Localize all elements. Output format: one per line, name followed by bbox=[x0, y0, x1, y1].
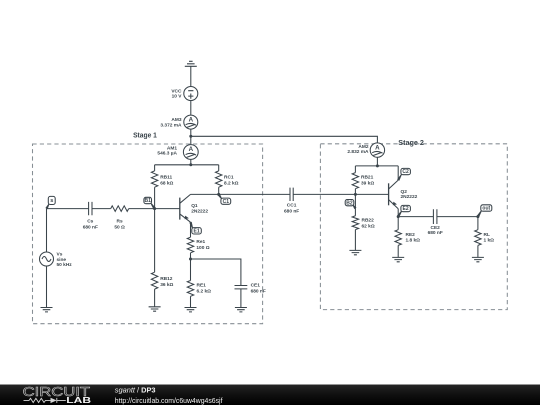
svg-text:8.2 kΩ: 8.2 kΩ bbox=[224, 180, 239, 186]
svg-text:AM2: AM2 bbox=[358, 144, 368, 150]
voltage source Vs sine 50 kHz bbox=[40, 209, 73, 269]
svg-text:AM1: AM1 bbox=[167, 145, 177, 151]
wire Q1 emitter down bbox=[190, 222, 192, 237]
wire AM2 to stage2 rail bbox=[376, 157, 378, 166]
wire CE2 to out bbox=[437, 216, 478, 218]
dashed box Stage 1 bbox=[33, 144, 263, 324]
resistor Rs 50 Ohm bbox=[111, 206, 129, 231]
capacitor CE2 680 nF bbox=[428, 209, 443, 236]
flag out bbox=[477, 205, 492, 218]
svg-text:RL: RL bbox=[484, 232, 490, 238]
svg-text:CE2: CE2 bbox=[431, 225, 441, 231]
ground under RE1 bbox=[185, 308, 197, 312]
svg-text:680 nF: 680 nF bbox=[428, 230, 443, 236]
wire RE1 to ground bbox=[190, 296, 192, 307]
svg-text:RB12: RB12 bbox=[160, 276, 173, 282]
resistor RB21 39 kOhm bbox=[352, 166, 374, 189]
svg-text:sgantt / DP3: sgantt / DP3 bbox=[115, 385, 156, 394]
wire stage1 top rail bbox=[155, 164, 219, 166]
dashed box Stage 2 bbox=[320, 144, 507, 310]
svg-text:Re1: Re1 bbox=[196, 239, 205, 245]
node supply split bbox=[189, 135, 192, 138]
wire RB11 to B1 bbox=[154, 187, 156, 208]
ammeter AM3 3.372 mA bbox=[160, 115, 197, 129]
svg-text:1.8 kΩ: 1.8 kΩ bbox=[406, 238, 421, 244]
svg-text:B1: B1 bbox=[144, 198, 151, 204]
svg-text:C2: C2 bbox=[402, 169, 409, 175]
ammeter AM1 546.3 uA bbox=[157, 145, 198, 160]
flag B1 bbox=[144, 197, 156, 209]
voltage source VCC 10 V bbox=[171, 87, 197, 101]
wire B2 down to RB22 bbox=[354, 194, 356, 215]
wire RE2 to ground bbox=[397, 245, 399, 257]
wire stage2 top rail bbox=[355, 165, 398, 167]
svg-text:out: out bbox=[482, 206, 490, 212]
node B1 bbox=[153, 207, 156, 210]
svg-text:62 kΩ: 62 kΩ bbox=[362, 223, 375, 229]
wire Vs to ground bbox=[46, 266, 48, 308]
wire Q1 collector line bbox=[191, 193, 291, 195]
wire RC1 to C1 node bbox=[218, 187, 220, 194]
svg-text:A: A bbox=[189, 116, 194, 123]
wire AM3 to node bbox=[190, 129, 192, 136]
svg-text:10 V: 10 V bbox=[172, 94, 183, 100]
node rail T bbox=[189, 163, 192, 166]
footer bar bbox=[0, 385, 540, 405]
wire RL to ground bbox=[477, 245, 479, 257]
wire RB12 to ground bbox=[154, 289, 156, 307]
svg-text:680 nF: 680 nF bbox=[284, 208, 299, 214]
svg-text:CE1: CE1 bbox=[251, 283, 261, 289]
node E2 junction bbox=[397, 215, 400, 218]
svg-text:68 kΩ: 68 kΩ bbox=[160, 180, 173, 186]
node emitter junction bbox=[189, 258, 192, 261]
capacitor CE1 680 nF bbox=[235, 283, 266, 295]
svg-text:AM3: AM3 bbox=[171, 117, 181, 123]
ground under CE1 bbox=[235, 308, 247, 312]
svg-text:Stage 1: Stage 1 bbox=[133, 130, 157, 139]
flag E2 bbox=[397, 205, 410, 217]
svg-text:RE1: RE1 bbox=[197, 283, 207, 289]
svg-text:6.2 kΩ: 6.2 kΩ bbox=[197, 288, 212, 294]
svg-text:2N2222: 2N2222 bbox=[401, 194, 418, 200]
svg-text:Rs: Rs bbox=[117, 219, 123, 225]
svg-text:100 Ω: 100 Ω bbox=[196, 245, 209, 251]
svg-text:LAB: LAB bbox=[66, 395, 91, 405]
node stage2 rail T bbox=[376, 164, 379, 167]
resistor RB22 62 kOhm bbox=[352, 216, 375, 230]
ground under RL bbox=[472, 257, 484, 261]
wire Re1 to emitter node bbox=[190, 253, 192, 259]
svg-text:B2: B2 bbox=[346, 200, 353, 206]
svg-text:2N2222: 2N2222 bbox=[191, 208, 208, 214]
wire Q2 collector riser bbox=[397, 166, 399, 180]
svg-text:RB22: RB22 bbox=[362, 218, 375, 224]
flag C1 bbox=[218, 194, 231, 205]
wire E2 to CE2 bbox=[398, 216, 433, 218]
resistor RL 1 kOhm bbox=[475, 217, 494, 246]
flag E1 bbox=[189, 222, 201, 235]
wire ground to VCC bbox=[190, 66, 192, 86]
wire CE1 to ground bbox=[240, 289, 242, 308]
svg-text:Cs: Cs bbox=[87, 219, 93, 225]
svg-text:39 kΩ: 39 kΩ bbox=[361, 180, 374, 186]
svg-text:546.3 µA: 546.3 µA bbox=[157, 151, 177, 157]
resistor RB11 68 kOhm bbox=[151, 165, 173, 187]
resistor RE2 1.8 kOhm bbox=[395, 217, 420, 246]
flag s bbox=[45, 196, 55, 209]
flag B2 bbox=[345, 200, 356, 210]
svg-text:E1: E1 bbox=[194, 229, 200, 235]
wire supply node to stage 2 (to AM2) bbox=[191, 136, 378, 143]
svg-text:Q1: Q1 bbox=[191, 203, 198, 209]
svg-text:Stage 2: Stage 2 bbox=[398, 138, 424, 147]
svg-text:680 nF: 680 nF bbox=[83, 224, 98, 230]
logo squiggle resistor-diode bbox=[24, 398, 66, 403]
svg-text:Q2: Q2 bbox=[401, 189, 408, 195]
svg-text:A: A bbox=[375, 144, 380, 151]
svg-text:A: A bbox=[189, 146, 194, 153]
node B2 bbox=[354, 193, 357, 196]
svg-text:Vs: Vs bbox=[57, 251, 63, 257]
node out bbox=[476, 215, 479, 218]
svg-text:C1: C1 bbox=[223, 199, 230, 205]
resistor RC1 8.2 kOhm bbox=[216, 165, 239, 187]
transistor Q2 2N2222 bbox=[389, 180, 418, 209]
svg-text:http://circuitlab.com/c6uw4wg4: http://circuitlab.com/c6uw4wg4s6sjf bbox=[115, 396, 224, 405]
svg-text:RE2: RE2 bbox=[406, 232, 416, 238]
capacitor CC1 680 nF bbox=[284, 188, 299, 215]
wire VCC to AM3 bbox=[190, 101, 192, 116]
wire RB21 to B2 bbox=[354, 189, 356, 195]
svg-text:RC1: RC1 bbox=[224, 174, 234, 180]
ammeter AM2 2.832 mA bbox=[347, 143, 384, 157]
svg-text:50 Ω: 50 Ω bbox=[114, 224, 125, 230]
node C1 bbox=[217, 193, 220, 196]
wire CC1 to B2 bbox=[293, 193, 355, 195]
svg-text:2.832 mA: 2.832 mA bbox=[347, 149, 369, 155]
wire B2 to Q2 base bbox=[355, 193, 388, 195]
ground under RE2 bbox=[392, 257, 404, 261]
ground under Vs bbox=[41, 308, 53, 312]
transistor Q1 2N2222 bbox=[180, 194, 209, 222]
svg-text:RB11: RB11 bbox=[160, 174, 172, 180]
resistor RB12 36 kOhm bbox=[151, 209, 173, 290]
svg-text:680 nF: 680 nF bbox=[251, 288, 266, 294]
resistor Re1 100 Ohm bbox=[187, 237, 209, 253]
ground under RB12 bbox=[149, 307, 161, 311]
wire Rs to Q1 base bbox=[129, 208, 180, 210]
ground under RB22 bbox=[349, 250, 361, 254]
ground (supply top, flipped) bbox=[185, 61, 197, 66]
wire emitter node to CE1 bbox=[191, 259, 241, 286]
wire node to AM1 bbox=[190, 136, 192, 144]
svg-text:E2: E2 bbox=[403, 206, 409, 212]
resistor RE1 6.2 kOhm bbox=[187, 259, 211, 296]
svg-text:s: s bbox=[50, 198, 53, 204]
flag C2 bbox=[397, 168, 410, 180]
capacitor Cs 680 nF bbox=[83, 202, 98, 231]
wire RB22 to ground bbox=[354, 230, 356, 251]
svg-text:3.372 mA: 3.372 mA bbox=[160, 122, 182, 128]
svg-text:36 kΩ: 36 kΩ bbox=[160, 282, 173, 288]
wire Cs to Rs bbox=[92, 208, 111, 210]
svg-text:RB21: RB21 bbox=[361, 174, 374, 180]
svg-text:1 kΩ: 1 kΩ bbox=[484, 238, 495, 244]
wire Q2 emitter down bbox=[397, 209, 399, 217]
wire input corner to Cs bbox=[47, 208, 89, 210]
svg-text:50 kHz: 50 kHz bbox=[57, 262, 73, 268]
svg-text:CC1: CC1 bbox=[287, 202, 297, 208]
wire AM1 to rail bbox=[190, 159, 192, 164]
svg-text:sine: sine bbox=[57, 257, 67, 263]
